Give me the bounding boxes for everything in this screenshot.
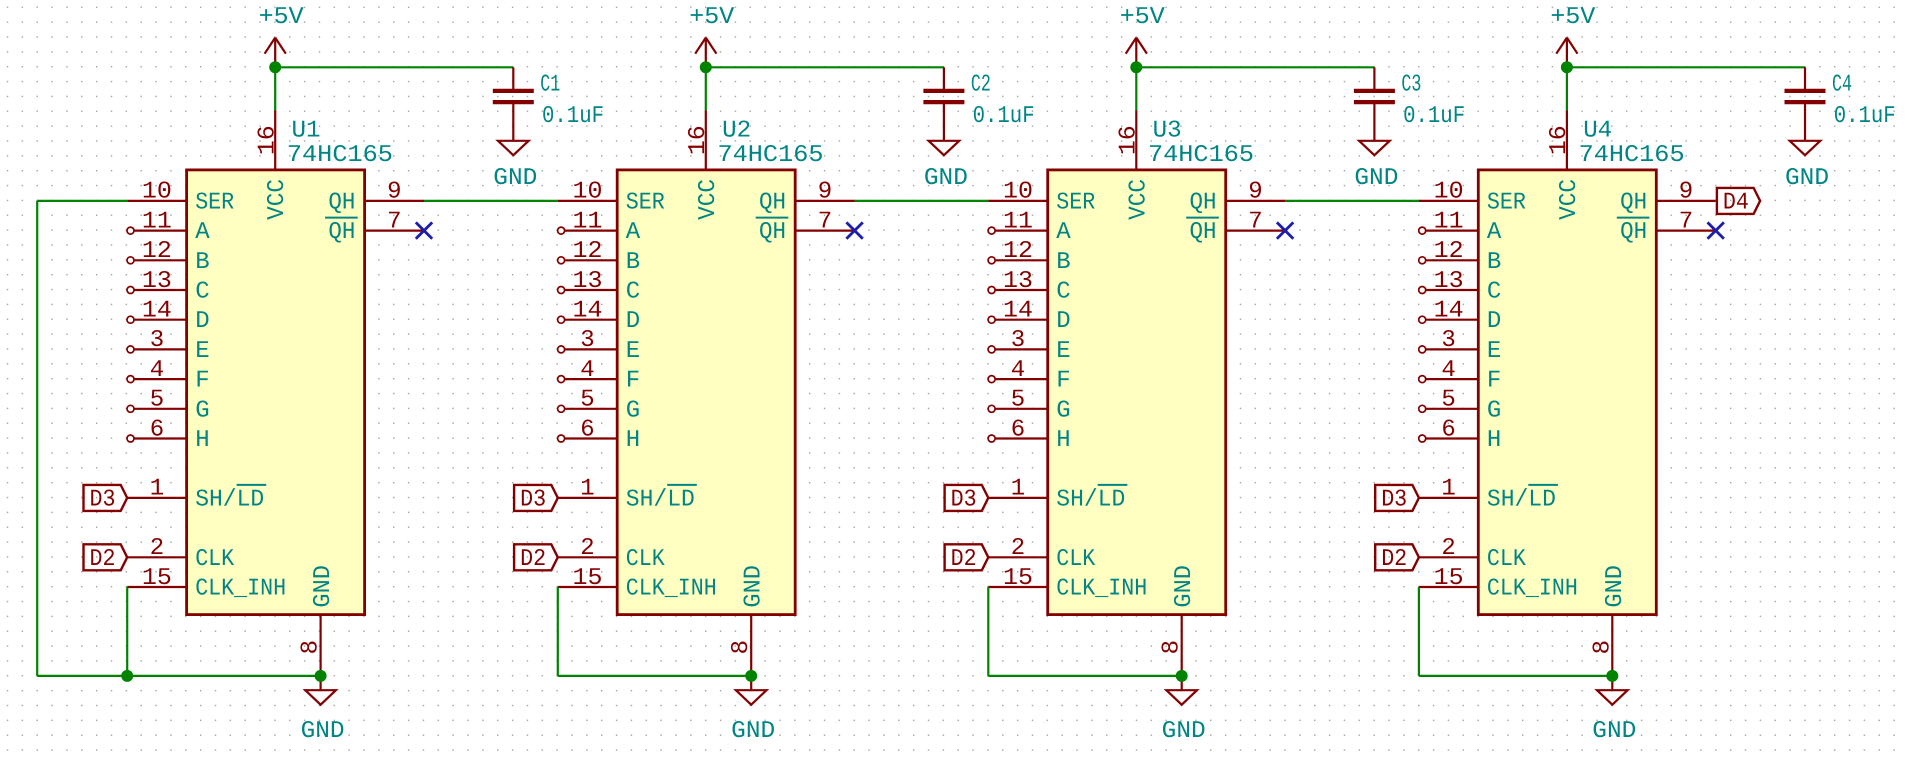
svg-text:D2: D2 bbox=[1381, 546, 1407, 573]
svg-text:VCC: VCC bbox=[1556, 179, 1583, 220]
svg-text:10: 10 bbox=[142, 179, 172, 206]
svg-text:CLK_INH: CLK_INH bbox=[1487, 576, 1578, 603]
svg-text:GND: GND bbox=[741, 565, 768, 608]
svg-text:GND: GND bbox=[1171, 565, 1198, 608]
svg-text:H: H bbox=[195, 427, 209, 454]
svg-text:D: D bbox=[1056, 308, 1070, 335]
svg-text:SH/LD: SH/LD bbox=[195, 486, 264, 513]
svg-text:15: 15 bbox=[142, 565, 172, 592]
svg-text:F: F bbox=[1487, 368, 1501, 395]
svg-text:A: A bbox=[1056, 219, 1071, 246]
svg-text:D2: D2 bbox=[90, 546, 116, 573]
svg-text:D4: D4 bbox=[1723, 189, 1749, 216]
svg-text:D2: D2 bbox=[520, 546, 546, 573]
svg-text:E: E bbox=[1056, 338, 1070, 365]
svg-text:E: E bbox=[195, 338, 209, 365]
svg-text:GND: GND bbox=[1785, 165, 1829, 192]
svg-text:5: 5 bbox=[1441, 387, 1455, 414]
svg-text:A: A bbox=[1487, 219, 1502, 246]
svg-text:VCC: VCC bbox=[1125, 179, 1152, 220]
svg-text:14: 14 bbox=[1003, 298, 1033, 325]
svg-text:5: 5 bbox=[580, 387, 594, 414]
svg-text:C2: C2 bbox=[971, 72, 991, 99]
svg-text:GND: GND bbox=[310, 565, 337, 608]
svg-text:8: 8 bbox=[1589, 640, 1616, 654]
svg-text:QH: QH bbox=[759, 219, 786, 246]
svg-text:4: 4 bbox=[1011, 357, 1025, 384]
svg-text:GND: GND bbox=[301, 718, 345, 745]
svg-text:GND: GND bbox=[1354, 165, 1398, 192]
svg-text:GND: GND bbox=[493, 165, 537, 192]
svg-text:0.1uF: 0.1uF bbox=[542, 103, 604, 130]
svg-text:7: 7 bbox=[1248, 208, 1262, 235]
svg-text:GND: GND bbox=[1602, 565, 1629, 608]
svg-text:G: G bbox=[1487, 397, 1501, 424]
svg-text:12: 12 bbox=[573, 238, 603, 265]
svg-text:GND: GND bbox=[1162, 718, 1206, 745]
svg-text:QH: QH bbox=[1620, 219, 1647, 246]
svg-text:D3: D3 bbox=[951, 486, 977, 513]
svg-text:U4: U4 bbox=[1583, 117, 1612, 144]
svg-text:15: 15 bbox=[1003, 565, 1033, 592]
svg-text:QH: QH bbox=[1190, 219, 1217, 246]
svg-text:CLK_INH: CLK_INH bbox=[1056, 576, 1147, 603]
svg-text:5: 5 bbox=[150, 387, 164, 414]
svg-text:10: 10 bbox=[573, 179, 603, 206]
svg-text:8: 8 bbox=[728, 640, 755, 654]
svg-text:QH: QH bbox=[328, 219, 355, 246]
svg-text:+5V: +5V bbox=[259, 4, 305, 31]
svg-text:9: 9 bbox=[1248, 179, 1262, 206]
svg-text:6: 6 bbox=[1441, 416, 1455, 443]
svg-text:GND: GND bbox=[1592, 718, 1636, 745]
svg-text:3: 3 bbox=[580, 327, 594, 354]
svg-text:CLK: CLK bbox=[626, 546, 666, 573]
svg-text:14: 14 bbox=[573, 298, 603, 325]
svg-text:D3: D3 bbox=[1381, 486, 1407, 513]
svg-text:14: 14 bbox=[142, 298, 172, 325]
svg-text:D2: D2 bbox=[951, 546, 977, 573]
svg-text:0.1uF: 0.1uF bbox=[973, 103, 1035, 130]
svg-text:CLK: CLK bbox=[1056, 546, 1096, 573]
svg-text:13: 13 bbox=[573, 268, 603, 295]
svg-text:2: 2 bbox=[1011, 535, 1025, 562]
svg-text:GND: GND bbox=[924, 165, 968, 192]
svg-text:14: 14 bbox=[1434, 298, 1464, 325]
svg-text:G: G bbox=[1056, 397, 1070, 424]
svg-text:D: D bbox=[1487, 308, 1501, 335]
svg-text:15: 15 bbox=[573, 565, 603, 592]
svg-text:A: A bbox=[195, 219, 210, 246]
svg-text:10: 10 bbox=[1434, 179, 1464, 206]
svg-text:0.1uF: 0.1uF bbox=[1834, 103, 1896, 130]
svg-text:5: 5 bbox=[1011, 387, 1025, 414]
svg-text:C1: C1 bbox=[540, 72, 560, 99]
svg-text:1: 1 bbox=[580, 476, 594, 503]
svg-text:11: 11 bbox=[573, 208, 603, 235]
svg-text:4: 4 bbox=[580, 357, 594, 384]
svg-text:74HC165: 74HC165 bbox=[718, 142, 824, 169]
svg-text:6: 6 bbox=[580, 416, 594, 443]
svg-text:13: 13 bbox=[142, 268, 172, 295]
svg-text:11: 11 bbox=[142, 208, 172, 235]
svg-text:4: 4 bbox=[150, 357, 164, 384]
svg-text:SH/LD: SH/LD bbox=[626, 486, 695, 513]
svg-text:CLK_INH: CLK_INH bbox=[626, 576, 717, 603]
svg-text:VCC: VCC bbox=[695, 179, 722, 220]
svg-text:SER: SER bbox=[626, 189, 665, 216]
svg-text:6: 6 bbox=[150, 416, 164, 443]
svg-text:SER: SER bbox=[195, 189, 234, 216]
svg-text:B: B bbox=[626, 249, 640, 276]
svg-text:C: C bbox=[1487, 279, 1501, 306]
svg-text:B: B bbox=[1487, 249, 1501, 276]
svg-text:4: 4 bbox=[1441, 357, 1455, 384]
svg-text:D3: D3 bbox=[520, 486, 546, 513]
svg-text:G: G bbox=[195, 397, 209, 424]
svg-text:11: 11 bbox=[1003, 208, 1033, 235]
svg-text:GND: GND bbox=[731, 718, 775, 745]
svg-text:QH: QH bbox=[759, 189, 786, 216]
svg-text:QH: QH bbox=[1620, 189, 1647, 216]
svg-text:3: 3 bbox=[1011, 327, 1025, 354]
svg-text:U1: U1 bbox=[292, 117, 321, 144]
svg-text:11: 11 bbox=[1434, 208, 1464, 235]
svg-text:D: D bbox=[195, 308, 209, 335]
svg-text:6: 6 bbox=[1011, 416, 1025, 443]
svg-text:H: H bbox=[626, 427, 640, 454]
svg-text:3: 3 bbox=[150, 327, 164, 354]
svg-text:8: 8 bbox=[298, 640, 325, 654]
svg-text:C3: C3 bbox=[1401, 72, 1421, 99]
svg-text:+5V: +5V bbox=[1120, 4, 1166, 31]
svg-text:SH/LD: SH/LD bbox=[1056, 486, 1125, 513]
svg-text:13: 13 bbox=[1434, 268, 1464, 295]
svg-text:12: 12 bbox=[1003, 238, 1033, 265]
svg-text:2: 2 bbox=[150, 535, 164, 562]
svg-text:16: 16 bbox=[685, 125, 712, 155]
svg-text:C: C bbox=[195, 279, 209, 306]
svg-text:16: 16 bbox=[254, 125, 281, 155]
svg-text:16: 16 bbox=[1116, 125, 1143, 155]
svg-text:SER: SER bbox=[1056, 189, 1095, 216]
svg-text:16: 16 bbox=[1546, 125, 1573, 155]
svg-text:U2: U2 bbox=[722, 117, 751, 144]
svg-text:C: C bbox=[626, 279, 640, 306]
svg-text:CLK: CLK bbox=[1487, 546, 1527, 573]
svg-text:9: 9 bbox=[1679, 179, 1693, 206]
svg-text:D: D bbox=[626, 308, 640, 335]
svg-text:13: 13 bbox=[1003, 268, 1033, 295]
svg-text:U3: U3 bbox=[1153, 117, 1182, 144]
svg-text:9: 9 bbox=[387, 179, 401, 206]
svg-text:CLK_INH: CLK_INH bbox=[195, 576, 286, 603]
svg-text:9: 9 bbox=[818, 179, 832, 206]
svg-text:CLK: CLK bbox=[195, 546, 235, 573]
svg-text:7: 7 bbox=[1679, 208, 1693, 235]
svg-text:E: E bbox=[626, 338, 640, 365]
svg-text:VCC: VCC bbox=[264, 179, 291, 220]
svg-text:SH/LD: SH/LD bbox=[1487, 486, 1556, 513]
svg-text:H: H bbox=[1056, 427, 1070, 454]
svg-text:F: F bbox=[1056, 368, 1070, 395]
svg-text:12: 12 bbox=[142, 238, 172, 265]
svg-text:12: 12 bbox=[1434, 238, 1464, 265]
svg-text:+5V: +5V bbox=[689, 4, 735, 31]
svg-text:15: 15 bbox=[1434, 565, 1464, 592]
svg-text:74HC165: 74HC165 bbox=[287, 142, 393, 169]
svg-text:B: B bbox=[1056, 249, 1070, 276]
svg-text:D3: D3 bbox=[90, 486, 116, 513]
svg-text:74HC165: 74HC165 bbox=[1148, 142, 1254, 169]
svg-text:SER: SER bbox=[1487, 189, 1526, 216]
svg-text:B: B bbox=[195, 249, 209, 276]
svg-text:G: G bbox=[626, 397, 640, 424]
svg-text:3: 3 bbox=[1441, 327, 1455, 354]
svg-text:1: 1 bbox=[150, 476, 164, 503]
svg-text:A: A bbox=[626, 219, 641, 246]
svg-text:C4: C4 bbox=[1832, 72, 1852, 99]
svg-text:7: 7 bbox=[387, 208, 401, 235]
svg-text:74HC165: 74HC165 bbox=[1579, 142, 1685, 169]
svg-text:F: F bbox=[195, 368, 209, 395]
svg-text:H: H bbox=[1487, 427, 1501, 454]
svg-text:1: 1 bbox=[1011, 476, 1025, 503]
svg-text:7: 7 bbox=[818, 208, 832, 235]
svg-text:0.1uF: 0.1uF bbox=[1403, 103, 1465, 130]
svg-text:F: F bbox=[626, 368, 640, 395]
svg-text:QH: QH bbox=[1190, 189, 1217, 216]
svg-text:2: 2 bbox=[580, 535, 594, 562]
svg-text:1: 1 bbox=[1441, 476, 1455, 503]
svg-text:QH: QH bbox=[328, 189, 355, 216]
svg-text:E: E bbox=[1487, 338, 1501, 365]
svg-text:C: C bbox=[1056, 279, 1070, 306]
svg-text:2: 2 bbox=[1441, 535, 1455, 562]
svg-text:8: 8 bbox=[1159, 640, 1186, 654]
svg-text:10: 10 bbox=[1003, 179, 1033, 206]
svg-text:+5V: +5V bbox=[1550, 4, 1596, 31]
